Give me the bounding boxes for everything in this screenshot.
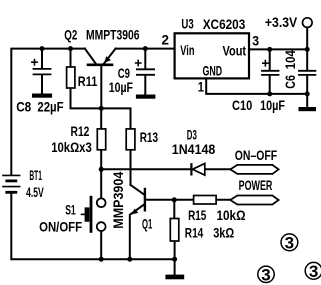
svg-text:3: 3: [261, 265, 270, 284]
svg-text:3kΩ: 3kΩ: [213, 225, 234, 241]
svg-text:10kΩ: 10kΩ: [217, 207, 246, 223]
svg-text:10kΩx3: 10kΩx3: [51, 139, 92, 155]
svg-text:10µF: 10µF: [260, 97, 285, 113]
svg-text:1: 1: [198, 79, 204, 95]
svg-text:GND: GND: [203, 63, 223, 79]
svg-text:MMPT3906: MMPT3906: [86, 27, 140, 43]
svg-text:+3.3V: +3.3V: [265, 14, 298, 30]
svg-text:C8: C8: [16, 99, 31, 115]
svg-text:MMP3904: MMP3904: [110, 172, 126, 229]
svg-text:Q2: Q2: [64, 26, 77, 42]
svg-text:XC6203: XC6203: [203, 16, 246, 32]
svg-text:S1: S1: [65, 202, 76, 218]
svg-text:U3: U3: [181, 16, 193, 32]
svg-text:BT1: BT1: [29, 167, 42, 183]
svg-text:R12: R12: [71, 123, 90, 139]
svg-text:Vout: Vout: [223, 42, 247, 58]
svg-text:Vin: Vin: [180, 42, 194, 58]
svg-text:R14: R14: [185, 225, 204, 241]
svg-text:3: 3: [252, 32, 259, 48]
svg-text:R15: R15: [188, 207, 206, 223]
svg-text:C6: C6: [282, 75, 298, 89]
svg-text:ON–OFF: ON–OFF: [235, 147, 278, 163]
svg-text:3: 3: [285, 233, 294, 252]
svg-text:1N4148: 1N4148: [172, 141, 216, 157]
svg-text:C10: C10: [232, 97, 252, 113]
svg-text:Q1: Q1: [142, 215, 152, 231]
svg-text:4.5V: 4.5V: [26, 184, 44, 200]
svg-text:104: 104: [282, 50, 298, 69]
svg-text:R13: R13: [140, 129, 158, 145]
svg-text:POWER: POWER: [239, 177, 273, 193]
svg-text:22µF: 22µF: [37, 99, 64, 115]
svg-text:10µF: 10µF: [109, 79, 134, 95]
svg-text:3: 3: [309, 262, 318, 281]
svg-text:2: 2: [162, 31, 170, 47]
svg-text:ON/OFF: ON/OFF: [39, 219, 82, 235]
svg-text:R11: R11: [78, 73, 98, 89]
